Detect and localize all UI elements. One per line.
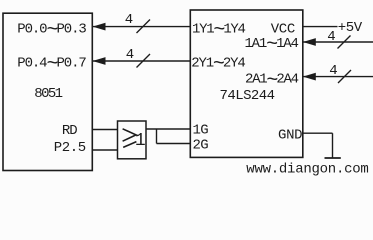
svg-text:4: 4 — [125, 12, 133, 28]
wire GND drop — [332, 133, 334, 157]
pin label P2.5 — [54, 140, 86, 156]
wire bus into 2A1~2A4 — [303, 73, 373, 81]
pin label RD — [62, 123, 77, 139]
wire to 2G — [157, 143, 191, 145]
ground — [325, 157, 341, 159]
svg-text:4: 4 — [329, 63, 337, 79]
wire OR gate output to 1G — [146, 128, 190, 130]
wire bus P0.0~P0.3 to 1Y1~1Y4 — [93, 23, 191, 31]
wire VCC to +5V — [303, 26, 338, 28]
svg-text:4: 4 — [126, 47, 134, 63]
wire junction drop to 2G — [156, 129, 158, 144]
wire bus into 1A1~1A4 — [303, 38, 373, 46]
svg-text:74LS244: 74LS244 — [220, 88, 275, 104]
pin label 1A1~1A4 — [244, 34, 298, 57]
svg-text:www.diangon.com: www.diangon.com — [246, 161, 368, 177]
wire RD to OR gate input — [93, 129, 118, 131]
svg-text:GND: GND — [278, 128, 302, 144]
svg-text:RD: RD — [62, 123, 77, 139]
wire GND out — [303, 132, 333, 134]
svg-text:8051: 8051 — [34, 86, 62, 102]
bus width label 4 — [125, 12, 133, 28]
pin label 2A1~2A4 — [245, 70, 299, 93]
svg-text:P2.5: P2.5 — [54, 140, 86, 156]
watermark www.diangon.com — [246, 161, 368, 177]
power label +5V — [338, 20, 363, 36]
pin label 2G — [193, 138, 209, 154]
pin label VCC — [271, 21, 295, 37]
svg-text:1: 1 — [135, 131, 146, 151]
wire P2.5 to OR gate input — [93, 149, 118, 151]
wire bus P0.4~P0.7 to 2Y1~2Y4 — [93, 57, 191, 65]
svg-text:2G: 2G — [193, 138, 209, 154]
OR gate U3 (IEC >=1) — [118, 121, 147, 159]
pin label P0.4~P0.7 — [17, 53, 86, 76]
pin label 1Y1~1Y4 — [192, 19, 246, 42]
pin label 1G — [193, 123, 209, 139]
svg-text:+5V: +5V — [338, 20, 363, 36]
pin label P0.0~P0.3 — [17, 19, 86, 42]
bus slash — [137, 20, 151, 34]
pin label GND — [278, 128, 302, 144]
bus slash — [338, 36, 351, 49]
74LS244 buffer box U2 — [190, 10, 302, 157]
svg-text:4: 4 — [327, 29, 335, 45]
bus width label 4 — [126, 47, 134, 63]
bus slash — [338, 70, 351, 83]
value label 8051 — [34, 86, 62, 102]
bus width label 4 — [327, 29, 335, 45]
pin label 2Y1~2Y4 — [191, 53, 245, 76]
bus width label 4 — [329, 63, 337, 79]
8051 MCU box U1 — [3, 13, 92, 170]
bus slash — [137, 54, 151, 68]
svg-text:1G: 1G — [193, 123, 209, 139]
value label 74LS244 — [220, 88, 275, 104]
